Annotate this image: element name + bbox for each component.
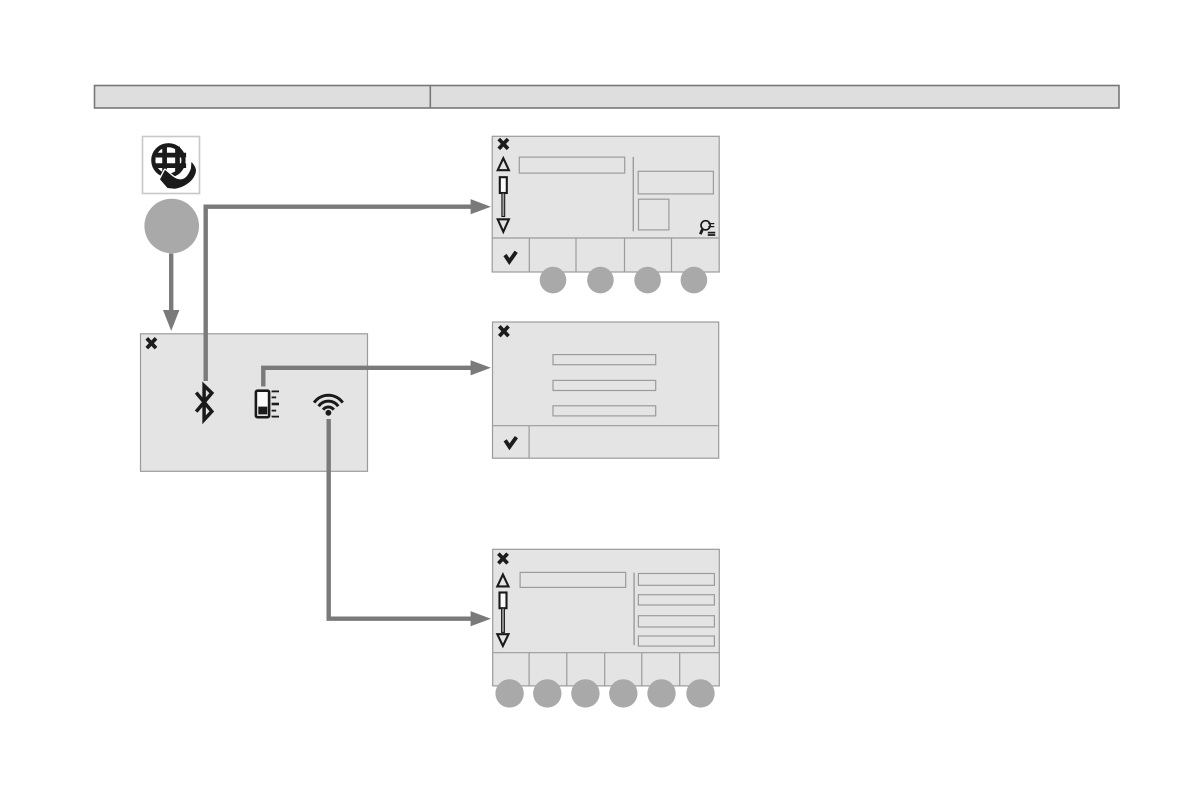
screen1 button circle 4 xyxy=(681,267,708,294)
screen2 check cell divider xyxy=(528,426,530,459)
screen1 vertical divider xyxy=(632,157,634,231)
screen2 confirm check xyxy=(505,437,516,447)
screen1 panel xyxy=(492,136,719,272)
screen3 button circle 6 xyxy=(686,679,714,707)
screen3 button circle 2 xyxy=(533,679,561,707)
arrow wire slider to screen2 xyxy=(263,368,477,387)
screen2 field 2 xyxy=(553,380,656,390)
arrow wire bluetooth to screen1 xyxy=(206,207,477,381)
screen1 button circle 2 xyxy=(587,267,614,294)
screen1 input field xyxy=(519,157,624,173)
screen3 button circle 5 xyxy=(647,679,675,707)
gray circle node xyxy=(144,199,199,254)
screen3 bottom row line xyxy=(493,652,720,654)
globe icon box xyxy=(143,137,200,194)
screen2 field 1 xyxy=(553,355,656,365)
arrow from circle to settings panel xyxy=(169,254,173,312)
screen2 panel xyxy=(493,322,719,458)
screen3 close X xyxy=(498,554,507,564)
screen1 confirm check xyxy=(505,252,516,262)
screen1 bottom cell dividers xyxy=(529,238,671,272)
screen3 button circle 3 xyxy=(571,679,599,707)
screen3 left field xyxy=(520,572,626,587)
screen1 search-list icon xyxy=(700,221,715,235)
screen1 scrollbar xyxy=(498,158,509,232)
screen2 bottom row line xyxy=(493,425,719,427)
screen3 button circle 4 xyxy=(609,679,637,707)
screen3 right field 1 xyxy=(638,574,714,586)
screen3 right field 3 xyxy=(638,616,714,627)
screen1 button circle 1 xyxy=(540,267,567,294)
settings panel close X xyxy=(147,338,156,348)
screen1 button circle 3 xyxy=(634,267,661,294)
screen2 close X xyxy=(499,326,508,336)
screen3 bottom cell dividers xyxy=(529,653,680,686)
screen1 small square xyxy=(639,199,669,230)
wifi icon xyxy=(314,395,343,416)
screen3 right field 2 xyxy=(638,595,714,605)
globe icon xyxy=(153,145,196,189)
screen3 vertical divider xyxy=(633,573,635,646)
screen2 field 3 xyxy=(553,406,656,416)
screen3 scrollbar xyxy=(497,575,508,646)
settings panel xyxy=(141,334,368,472)
header bar divider xyxy=(429,86,431,109)
header bar xyxy=(95,86,1120,109)
screen1 bottom row line xyxy=(492,237,719,239)
bluetooth icon xyxy=(196,386,212,420)
screen3 right field 4 xyxy=(638,636,714,646)
screen1 close X xyxy=(499,139,508,149)
screen3 panel xyxy=(493,549,720,686)
slider level icon xyxy=(256,391,279,418)
screen3 button circle 1 xyxy=(495,679,523,707)
arrow wire wifi to screen3 xyxy=(329,419,477,619)
screen1 right rect xyxy=(638,171,713,194)
